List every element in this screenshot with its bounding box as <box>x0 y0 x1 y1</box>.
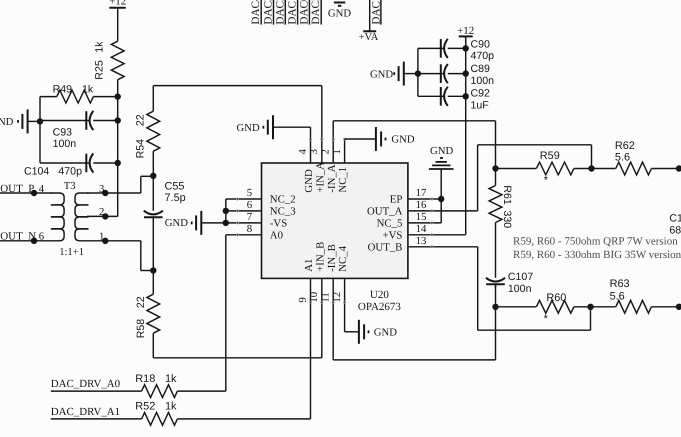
svg-text:C90: C90 <box>471 39 491 51</box>
svg-text:OUT_P: OUT_P <box>0 183 34 195</box>
svg-text:1:1+1: 1:1+1 <box>59 247 84 258</box>
svg-text:3: 3 <box>99 183 104 195</box>
svg-text:GND: GND <box>328 7 351 19</box>
svg-text:R18: R18 <box>135 373 155 385</box>
svg-text:NC_5: NC_5 <box>377 218 403 230</box>
svg-text:C92: C92 <box>471 88 491 100</box>
svg-text:R52: R52 <box>135 401 155 413</box>
svg-text:GND: GND <box>430 145 453 157</box>
svg-text:GND: GND <box>303 169 315 193</box>
svg-text:7.5p: 7.5p <box>165 192 186 204</box>
svg-text:DAC0: DAC0 <box>298 0 310 25</box>
svg-text:GND: GND <box>374 327 397 339</box>
svg-text:2: 2 <box>99 206 104 218</box>
svg-text:1k: 1k <box>93 41 105 53</box>
svg-text:R58: R58 <box>135 319 147 339</box>
svg-text:13: 13 <box>416 235 427 247</box>
svg-text:DAC5: DAC5 <box>310 0 322 25</box>
svg-text:NC_2: NC_2 <box>270 194 296 206</box>
svg-text:EP: EP <box>390 194 403 206</box>
svg-text:C1: C1 <box>669 213 681 225</box>
svg-text:C89: C89 <box>471 63 491 75</box>
svg-text:1: 1 <box>99 231 104 243</box>
svg-text:100n: 100n <box>53 138 77 150</box>
svg-text:5: 5 <box>247 187 252 199</box>
svg-text:*: * <box>544 174 549 186</box>
svg-text:U20: U20 <box>370 289 389 301</box>
svg-text:6: 6 <box>247 199 253 211</box>
svg-text:GND: GND <box>391 134 414 146</box>
svg-text:A0: A0 <box>270 229 283 241</box>
svg-text:R25: R25 <box>93 60 105 80</box>
svg-text:R59, R60 - 330ohm BIG 35W vers: R59, R60 - 330ohm BIG 35W version <box>513 249 681 261</box>
svg-text:C107: C107 <box>508 271 533 283</box>
svg-text:R59, R60 - 750ohm QRP 7W versi: R59, R60 - 750ohm QRP 7W version <box>513 235 678 247</box>
svg-text:OUT_A: OUT_A <box>367 206 403 218</box>
svg-text:1k: 1k <box>165 373 177 385</box>
svg-text:-IN_B: -IN_B <box>326 244 338 272</box>
svg-text:*: * <box>544 313 549 325</box>
svg-text:DAC_DRV_A1: DAC_DRV_A1 <box>51 406 120 418</box>
svg-text:A1: A1 <box>303 259 315 272</box>
svg-text:GND: GND <box>370 68 393 80</box>
svg-text:+12: +12 <box>457 25 474 37</box>
svg-text:5.6: 5.6 <box>615 151 630 163</box>
svg-text:1uF: 1uF <box>471 99 490 111</box>
svg-text:NC_3: NC_3 <box>270 206 296 218</box>
svg-text:100n: 100n <box>471 75 495 87</box>
svg-text:15: 15 <box>416 211 427 223</box>
svg-text:DAC3: DAC3 <box>263 0 275 25</box>
svg-text:DAC2: DAC2 <box>274 0 286 25</box>
svg-text:C104: C104 <box>24 166 49 178</box>
svg-text:5.6: 5.6 <box>610 291 625 303</box>
svg-text:1k: 1k <box>165 401 177 413</box>
svg-text:C55: C55 <box>165 180 185 192</box>
svg-text:GND: GND <box>0 116 14 128</box>
svg-text:-IN_A: -IN_A <box>326 164 338 192</box>
svg-text:9: 9 <box>297 297 309 302</box>
svg-text:68: 68 <box>669 224 681 236</box>
svg-text:+12: +12 <box>109 0 126 7</box>
svg-text:OUT_B: OUT_B <box>368 241 403 253</box>
svg-text:4: 4 <box>297 149 309 155</box>
svg-text:GND: GND <box>237 122 260 134</box>
svg-text:R49: R49 <box>53 84 73 96</box>
svg-text:NC_1: NC_1 <box>337 167 349 193</box>
svg-text:4: 4 <box>39 183 45 195</box>
svg-text:100n: 100n <box>508 283 532 295</box>
svg-text:470p: 470p <box>471 50 495 62</box>
svg-text:-VS: -VS <box>270 218 287 230</box>
svg-text:DAC_DRV_A0: DAC_DRV_A0 <box>51 378 121 390</box>
svg-text:C93: C93 <box>53 127 73 139</box>
svg-text:+IN_B: +IN_B <box>314 242 326 272</box>
svg-text:+IN_A: +IN_A <box>314 162 326 193</box>
svg-text:R54: R54 <box>134 139 146 159</box>
svg-text:7: 7 <box>247 211 253 223</box>
svg-text:R63: R63 <box>610 278 630 290</box>
svg-text:R61: R61 <box>501 185 513 205</box>
svg-text:OPA2673: OPA2673 <box>358 301 401 313</box>
svg-text:22: 22 <box>135 296 147 308</box>
svg-text:R60: R60 <box>546 292 566 304</box>
svg-text:17: 17 <box>416 187 427 199</box>
svg-text:DAC1: DAC1 <box>287 0 299 25</box>
svg-text:470p: 470p <box>58 166 82 178</box>
svg-text:+VA: +VA <box>359 32 379 43</box>
svg-text:6: 6 <box>39 231 45 243</box>
svg-text:NC_4: NC_4 <box>337 245 349 271</box>
svg-text:T3: T3 <box>64 180 76 192</box>
svg-text:OUT_N: OUT_N <box>0 231 36 243</box>
svg-text:R59: R59 <box>540 150 560 162</box>
svg-text:22: 22 <box>134 114 146 126</box>
svg-text:16: 16 <box>416 199 427 211</box>
svg-text:DAC4: DAC4 <box>250 0 262 25</box>
svg-text:GND: GND <box>165 217 188 229</box>
svg-text:1k: 1k <box>82 84 94 96</box>
svg-text:8: 8 <box>247 223 252 235</box>
svg-text:14: 14 <box>416 223 427 235</box>
svg-text:+VS: +VS <box>382 229 402 241</box>
svg-text:330: 330 <box>501 211 513 229</box>
svg-text:R62: R62 <box>615 140 635 152</box>
